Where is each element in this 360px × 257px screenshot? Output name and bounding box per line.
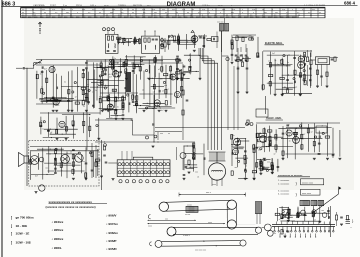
- svg-text:x: x: [102, 9, 103, 11]
- junction: [285, 217, 286, 218]
- ground: [176, 77, 179, 79]
- resistor: [262, 85, 264, 89]
- capacitor: [67, 100, 70, 102]
- junction: [260, 159, 261, 160]
- capacitor: [54, 158, 57, 160]
- resistor: [86, 97, 88, 101]
- resistor on left leg: [164, 42, 166, 47]
- resistor: [271, 163, 273, 167]
- junction: [196, 71, 197, 72]
- wire bundle run: [199, 56, 208, 150]
- resistor: [263, 129, 265, 133]
- wire: [256, 124, 258, 158]
- svg-text:x x: x x: [297, 12, 299, 14]
- wire: [299, 55, 301, 94]
- socket contact top: [148, 163, 151, 166]
- wire: [41, 101, 73, 103]
- svg-text:x: x: [77, 12, 78, 14]
- resistor: [280, 77, 284, 79]
- wire corner: [133, 120, 155, 135]
- wire bus: [100, 92, 138, 94]
- wire: [297, 208, 299, 218]
- svg-text:xxx: xxx: [264, 12, 267, 14]
- wire: [81, 154, 83, 173]
- capacitor: [286, 124, 289, 126]
- wire: [297, 212, 330, 214]
- resistor: [153, 84, 155, 88]
- svg-text:4x7: 4x7: [161, 110, 164, 112]
- components on left chassis wall: [103, 146, 105, 150]
- svg-text:xxx: xxx: [68, 98, 71, 100]
- wire: [242, 57, 251, 59]
- resistor: [65, 127, 67, 131]
- junction: [268, 83, 269, 84]
- junction: [265, 168, 266, 169]
- ground: [263, 157, 266, 159]
- resistor ladder element: [306, 57, 308, 62]
- capacitors right of valve: [199, 36, 202, 38]
- capacitor: [52, 96, 55, 98]
- wire stub detector: [216, 32, 218, 49]
- wire: [161, 56, 163, 73]
- capacitor: [237, 140, 239, 143]
- resistor: [81, 87, 85, 89]
- capacitor: [244, 150, 247, 152]
- svg-text:xxx: xxx: [59, 163, 62, 165]
- wire: [327, 123, 329, 157]
- resistor: [72, 121, 74, 125]
- socket contact top: [166, 163, 169, 166]
- wire: [98, 80, 125, 82]
- wire: [184, 70, 199, 72]
- ground: [281, 93, 284, 95]
- right margin parts: [340, 216, 343, 218]
- wire: [270, 65, 291, 67]
- svg-text:1x: 1x: [95, 90, 97, 92]
- junction: [147, 103, 148, 104]
- wire: [110, 115, 121, 117]
- capacitor on vertical: [152, 123, 154, 125]
- wire bundle stub: [198, 48, 200, 56]
- wire: [269, 126, 271, 152]
- wire: [109, 66, 124, 68]
- ground: [67, 109, 70, 111]
- resistor: [68, 89, 70, 93]
- series capacitor on left input: [16, 67, 23, 69]
- ferrite rod antenna: [34, 62, 42, 65]
- ground: [107, 109, 110, 111]
- wire: [193, 33, 195, 48]
- capacitor: [318, 135, 320, 138]
- svg-text:xxxx: xxxx: [212, 184, 216, 186]
- small box component: [212, 37, 219, 42]
- wire: [286, 127, 332, 129]
- trimmer: [251, 38, 253, 40]
- junction: [62, 134, 63, 135]
- capacitor: [244, 168, 247, 170]
- wire: [151, 86, 164, 88]
- resistor: [60, 163, 62, 167]
- resistor: [244, 155, 246, 159]
- ground row: [235, 59, 238, 61]
- capacitor: [327, 209, 330, 211]
- wire bundle stub: [201, 48, 203, 61]
- wire mid drop: [157, 132, 159, 140]
- svg-text:1x: 1x: [40, 120, 42, 122]
- svg-text:x xx: x xx: [52, 9, 55, 11]
- wire: [192, 153, 204, 155]
- detector diode components: [207, 39, 211, 41]
- bottom cord arrows: [204, 241, 206, 242]
- ground: [193, 49, 196, 51]
- wire: [102, 100, 124, 102]
- svg-text:xxx: xxx: [321, 210, 324, 212]
- wire: [177, 44, 196, 46]
- wire: [266, 64, 292, 66]
- capacitor: [104, 69, 106, 72]
- svg-text:4x7: 4x7: [109, 76, 112, 78]
- wire: [42, 148, 44, 180]
- hook symbol: [148, 215, 150, 219]
- trimmer: [74, 82, 76, 84]
- wire: [276, 88, 293, 90]
- socket strip top tab: [133, 157, 153, 160]
- wire: [115, 97, 117, 118]
- trimmer: [89, 152, 91, 154]
- wire bus: [86, 60, 126, 62]
- small box: [316, 126, 327, 133]
- wire: [281, 137, 322, 139]
- svg-text:x: x: [302, 9, 303, 11]
- wire: [287, 129, 289, 158]
- svg-text:x x: x x: [121, 12, 123, 14]
- junction: [53, 98, 54, 99]
- svg-text:1x: 1x: [42, 129, 44, 131]
- junction: [296, 128, 297, 129]
- capacitor: [72, 148, 75, 150]
- pointer flag: [338, 187, 340, 195]
- header rule full width: [1, 5, 357, 6]
- svg-text:x2: x2: [288, 124, 290, 126]
- right chain caps: [237, 67, 240, 69]
- trimmer: [103, 68, 105, 70]
- wire: [47, 112, 49, 137]
- socket contact bottom: [155, 171, 158, 174]
- svg-text:2. xxxxxxxx: 2. xxxxxxxx: [278, 183, 290, 185]
- wire: [278, 127, 314, 129]
- socket strip cell dividers: [123, 160, 125, 177]
- capacitor: [72, 124, 75, 126]
- trimmer: [177, 37, 179, 39]
- capacitor: [231, 41, 234, 43]
- wire: [274, 59, 276, 94]
- svg-text:1x: 1x: [159, 102, 161, 104]
- wire: [319, 206, 321, 222]
- wire: [118, 71, 120, 99]
- ground: [158, 109, 161, 111]
- svg-text:xx: xx: [32, 9, 34, 11]
- resistor: [169, 67, 171, 71]
- wire vertical mid: [153, 95, 155, 142]
- resistor: [231, 135, 233, 139]
- ground: [125, 77, 128, 79]
- wire right of socket: [182, 159, 184, 171]
- capacitor: [85, 162, 88, 164]
- wire bundle stub: [200, 48, 202, 58]
- wires socket to bus: [121, 151, 123, 160]
- ground: [199, 77, 202, 79]
- junction: [130, 38, 131, 39]
- wire: [177, 58, 179, 79]
- wire: [136, 94, 138, 113]
- svg-text:x2: x2: [314, 220, 316, 222]
- svg-text:xx: xx: [168, 133, 170, 135]
- third dimension line: [148, 223, 226, 225]
- junction: [105, 109, 106, 110]
- wire: [263, 127, 265, 152]
- resistor: [288, 209, 290, 213]
- svg-text:♪ 908/xx: ♪ 908/xx: [106, 231, 118, 235]
- resistor: [154, 57, 156, 61]
- wire bus upper: [36, 59, 180, 61]
- wire: [143, 71, 145, 100]
- ground mid: [152, 145, 155, 147]
- socket contact top: [163, 163, 166, 166]
- S1 coils: [107, 44, 110, 49]
- svg-text:♪ 905/xx: ♪ 905/xx: [52, 228, 64, 232]
- loudspeaker right: [260, 136, 267, 143]
- wire: [30, 151, 32, 180]
- wire: [61, 147, 63, 176]
- wire: [253, 144, 255, 178]
- trimmer: [282, 211, 284, 213]
- resistor: [282, 151, 284, 155]
- resistor: [51, 99, 55, 101]
- resistor: [252, 171, 256, 173]
- svg-text:4x7: 4x7: [164, 40, 167, 42]
- table column separators: [20, 8, 22, 17]
- resistor: [193, 39, 195, 43]
- trimmer: [322, 132, 324, 134]
- resistor: [139, 39, 141, 43]
- wire mid horizontal: [155, 131, 182, 133]
- wire: [67, 71, 69, 109]
- ground: [253, 177, 256, 179]
- wire: [285, 153, 334, 155]
- S1 caps: [107, 50, 110, 52]
- capacitor: [47, 130, 50, 132]
- svg-text:x xx: x xx: [252, 9, 255, 11]
- svg-text:xxx: xxx: [235, 167, 238, 169]
- resistor: [72, 154, 74, 158]
- svg-text:4x7: 4x7: [35, 175, 38, 177]
- junction: [190, 167, 191, 168]
- resistor: [95, 159, 99, 161]
- junction: [62, 165, 63, 166]
- far right parts: [346, 216, 348, 220]
- wire: [88, 72, 90, 105]
- capacitor: [192, 144, 195, 146]
- junction: [317, 153, 318, 154]
- trimmer: [124, 38, 126, 40]
- wire bundle run: [204, 63, 218, 150]
- resistor: [271, 166, 273, 170]
- wire: [193, 143, 195, 171]
- wire: [237, 36, 253, 38]
- socket strip numbers: [119, 180, 122, 183]
- resistor: [325, 136, 329, 138]
- wire: [292, 220, 320, 222]
- resistor: [275, 145, 277, 149]
- svg-text:x2: x2: [75, 96, 77, 98]
- wire: [96, 63, 98, 101]
- valve: [107, 104, 113, 110]
- wire: [235, 138, 247, 140]
- svg-text:ge 700 95/xx: ge 700 95/xx: [16, 216, 35, 220]
- svg-text:x: x: [253, 12, 254, 14]
- junction: [78, 86, 79, 87]
- trimmer: [189, 59, 191, 61]
- wire: [71, 70, 73, 111]
- resistor: [312, 211, 314, 215]
- right chain wires: [237, 48, 239, 92]
- svg-text:1x: 1x: [284, 87, 286, 89]
- svg-text:xx: xx: [187, 12, 189, 14]
- valve under chassis: [39, 185, 45, 191]
- svg-text:xxx: xxx: [140, 57, 143, 59]
- svg-text:U ANTENNA: U ANTENNA: [33, 4, 45, 7]
- wire: [46, 70, 48, 103]
- wire: [231, 35, 233, 62]
- power transformer laminations: [209, 152, 211, 161]
- svg-text:x: x: [242, 12, 243, 14]
- carriage wires: [256, 214, 258, 225]
- junction: [286, 65, 287, 66]
- junction: [117, 62, 118, 63]
- junction: [189, 55, 190, 56]
- wire bundle run: [201, 58, 212, 150]
- svg-text:x2: x2: [110, 118, 112, 120]
- junction: [47, 101, 48, 102]
- svg-text:xxx: xxx: [195, 172, 198, 174]
- resistor: [29, 160, 31, 164]
- wire: [128, 94, 130, 113]
- second dimension line: [148, 219, 197, 221]
- circled node numbers: [103, 28, 106, 31]
- wire: [113, 60, 115, 108]
- lower cord run: [173, 226, 258, 228]
- svg-text:xxx: xxx: [112, 74, 115, 76]
- svg-text:x2: x2: [311, 132, 313, 134]
- small hook left: [150, 242, 152, 246]
- capacitor: [122, 99, 125, 101]
- svg-text:x2: x2: [155, 62, 157, 64]
- capacitor: [54, 157, 57, 159]
- wire: [287, 207, 289, 219]
- wire: [238, 178, 248, 180]
- capacitor: [189, 65, 192, 67]
- svg-text:1x: 1x: [83, 106, 85, 108]
- svg-text:xx: xx: [319, 12, 321, 14]
- wire: [97, 67, 115, 69]
- ground: [326, 157, 329, 159]
- capacitor: [123, 63, 126, 65]
- page left scan edge: [1, 0, 3, 257]
- S2 parts: [152, 38, 155, 40]
- wire: [46, 99, 86, 101]
- svg-text:xxxxx: xxxxx: [187, 204, 192, 206]
- wire: [133, 55, 135, 74]
- resistor: [176, 59, 178, 63]
- trimmer: [109, 59, 111, 61]
- valve: [113, 71, 119, 77]
- resistor: [189, 66, 191, 70]
- svg-text:1x: 1x: [289, 141, 291, 143]
- wire: [52, 65, 54, 108]
- svg-text:x: x: [212, 9, 213, 11]
- wire: [258, 168, 266, 170]
- resistor: [82, 101, 84, 105]
- svg-text:1/2W - 10$: 1/2W - 10$: [16, 241, 31, 245]
- trimmer: [108, 98, 110, 100]
- wire bus mid: [155, 127, 245, 129]
- three-line symbol: [346, 219, 351, 221]
- wire: [312, 206, 314, 221]
- socket contact top: [122, 163, 125, 166]
- wire: [261, 146, 270, 148]
- wire: [87, 78, 109, 80]
- svg-text:x: x: [220, 12, 221, 14]
- resistor: [122, 103, 124, 107]
- svg-text:xx: xx: [262, 9, 264, 11]
- wire: [54, 164, 81, 166]
- wire: [301, 122, 303, 150]
- wire: [263, 159, 266, 161]
- junction: [89, 114, 90, 115]
- wire: [297, 207, 299, 218]
- svg-text:xx: xx: [42, 161, 44, 163]
- switch bank contacts: [274, 227, 276, 231]
- ground: [55, 109, 58, 111]
- resistor: [297, 212, 299, 216]
- legend box 1: [301, 179, 324, 185]
- resistor: [193, 155, 195, 159]
- svg-text:1x: 1x: [274, 60, 276, 62]
- valve right of socket: [180, 153, 186, 159]
- resistor: [269, 141, 271, 145]
- capacitor: [82, 68, 85, 70]
- resistor: [267, 130, 271, 132]
- svg-text:xxx: xxx: [267, 162, 270, 164]
- wire: [269, 52, 271, 95]
- svg-text:x xx: x xx: [112, 9, 115, 11]
- socket contact bottom: [122, 171, 125, 174]
- valve: [286, 130, 292, 136]
- wire bus: [256, 122, 340, 124]
- transformer terminals: [212, 179, 213, 180]
- svg-text:x xx: x xx: [82, 9, 85, 11]
- capacitor: [203, 44, 206, 46]
- resistor: [115, 97, 117, 101]
- left pin circles: [161, 39, 164, 42]
- ground: [231, 61, 234, 63]
- capacitor: [176, 55, 179, 57]
- svg-text:3. xxxxxxxx: 3. xxxxxxxx: [278, 190, 290, 192]
- junction: [121, 118, 122, 119]
- wire: [44, 128, 78, 130]
- svg-text:xxxx: xxxx: [208, 222, 212, 224]
- svg-text:x2: x2: [62, 162, 64, 164]
